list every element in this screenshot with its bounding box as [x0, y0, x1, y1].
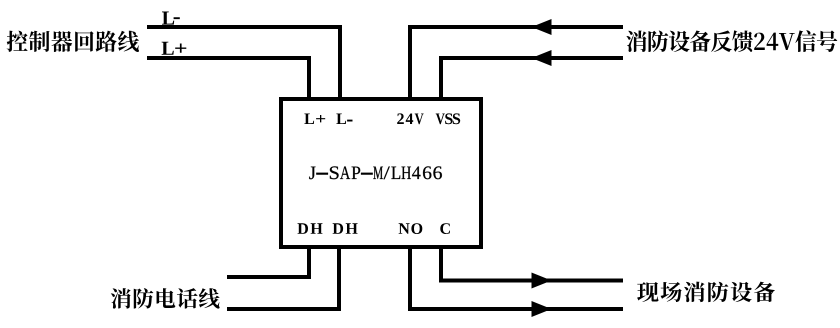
net label 消防电话线 (fire telephone line) — [111, 288, 220, 309]
pin label L+ — [304, 114, 325, 125]
pin label C — [440, 223, 450, 234]
wire L+ vertical drop to terminal L+ — [307, 56, 311, 101]
wire C vertical from terminal C — [439, 246, 443, 282]
pin label L- — [336, 114, 352, 125]
arrowhead on NO line (pointing right) — [532, 301, 552, 317]
wire DH2 vertical from terminal DH — [337, 246, 341, 311]
pin label NO — [399, 223, 423, 234]
wire DH1 horizontal (telephone line) — [227, 275, 311, 279]
wire C horizontal (to field device) — [439, 279, 623, 283]
wire L+ horizontal (controller loop) — [147, 56, 311, 60]
wire NO horizontal (to field device) — [408, 307, 623, 311]
arrowhead into 24V line (pointing left) — [532, 19, 552, 35]
wire L- vertical drop to terminal L- — [338, 25, 342, 101]
net label L+ (top left) — [162, 42, 187, 55]
net label 现场消防设备 (field fire-fighting devices) — [637, 282, 775, 303]
wire VSS horizontal (feedback signal) — [439, 56, 623, 60]
module U1 J-SAP-M/LH466 body — [281, 99, 481, 247]
wire VSS vertical drop to terminal VSS — [439, 56, 443, 101]
net label 控制器回路线 (controller loop line) — [7, 31, 139, 52]
wire L- horizontal (controller loop) — [147, 25, 342, 29]
net label 消防设备反馈24V信号 (fire device feedback 24V signal) — [626, 30, 837, 52]
module designation J-SAP-M/LH466 — [309, 166, 442, 179]
arrowhead on C line (pointing right) — [532, 273, 552, 289]
wire 24V vertical drop to terminal 24V — [408, 25, 412, 101]
pin label 24V — [397, 113, 423, 124]
net label L- (top left) — [162, 12, 180, 25]
wire NO vertical from terminal NO — [408, 246, 412, 311]
pin label VSS — [436, 113, 461, 124]
wire DH1 vertical from terminal DH — [307, 246, 311, 279]
arrowhead into VSS line (pointing left) — [532, 50, 552, 66]
pin label DH (2) — [333, 223, 358, 234]
pin label DH (1) — [298, 223, 323, 234]
wire 24V horizontal (feedback signal) — [408, 25, 623, 29]
wire DH2 horizontal (telephone line) — [227, 307, 341, 311]
